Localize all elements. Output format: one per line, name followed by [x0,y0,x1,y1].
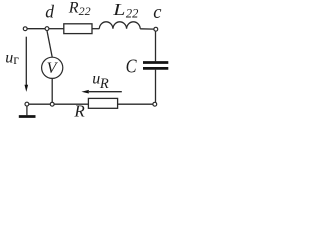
voltage arrow u_g (down) [25,37,29,92]
terminal (input top-left) [23,27,27,31]
resistor R [88,98,117,108]
svg-text:22: 22 [126,6,138,20]
wire resistor R to bottom junction [54,103,88,105]
ground [19,106,36,116]
voltage arrow u_R (left) [81,90,121,94]
svg-text:c: c [153,3,162,23]
svg-text:R22: R22 [68,0,91,18]
wire node d down to voltmeter (slanted) [47,31,52,57]
svg-text:u: u [5,50,13,67]
bottom junction circle (voltmeter) [50,102,54,106]
wire top-left: input terminal to node d [27,28,45,30]
wire bottom junction to bottom-left terminal [29,103,50,105]
capacitor C [143,63,168,69]
wire inductor L22 to node c [140,28,154,30]
wire resistor R22 to inductor L22 [92,28,99,30]
svg-text:R: R [99,76,109,92]
svg-text:г: г [13,52,19,67]
svg-text:R: R [73,102,85,121]
bottom-right terminal circle [153,102,157,106]
wire bottom-right terminal to resistor R [118,103,153,105]
node c terminal circle [154,27,158,31]
node d junction circle [45,27,49,31]
svg-text:C: C [126,55,137,78]
inductor L22 [99,22,140,29]
wire node d to resistor R22 [49,28,64,30]
bottom-left terminal circle [25,102,29,106]
wire voltmeter down to bottom junction [51,79,53,103]
svg-text:d: d [45,2,54,22]
op: voltmeter V circle [42,57,63,78]
wire node c down to capacitor C [155,31,157,61]
wire capacitor C down to bottom-right terminal [155,70,157,103]
svg-text:L: L [112,1,125,19]
resistor R22 [64,24,92,34]
